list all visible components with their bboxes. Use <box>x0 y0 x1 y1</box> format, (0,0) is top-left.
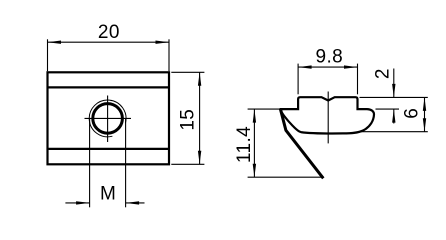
svg-text:20: 20 <box>98 22 120 43</box>
svg-text:6: 6 <box>401 108 422 119</box>
svg-text:9.8: 9.8 <box>315 46 343 67</box>
svg-text:11.4: 11.4 <box>234 126 255 163</box>
svg-text:2: 2 <box>373 68 394 79</box>
svg-text:15: 15 <box>178 109 199 131</box>
svg-text:M: M <box>100 184 116 205</box>
